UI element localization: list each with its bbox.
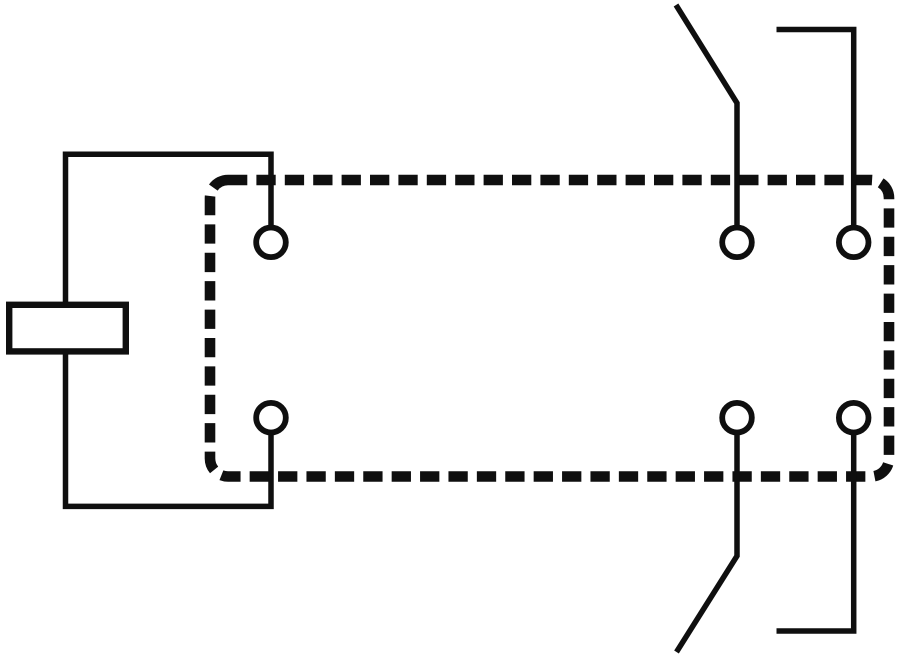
relay coil K1 (9, 305, 126, 352)
wire coil bottom loop (66, 352, 272, 506)
switch arm bottom (pole 2 movable contact) (677, 432, 738, 652)
fixed contact lead top (pole 1) (777, 30, 854, 229)
wire coil top loop (66, 154, 272, 304)
common terminal pole 2 (722, 403, 752, 433)
fixed contact lead bottom (pole 2) (777, 432, 854, 631)
coil terminal bottom-left (256, 403, 286, 433)
switch arm top (pole 1 movable contact) (676, 5, 737, 228)
relay enclosure (dashed outline) (210, 180, 889, 477)
coil terminal top-left (256, 228, 286, 258)
fixed contact terminal pole 2 (839, 403, 869, 433)
fixed contact terminal pole 1 (839, 228, 869, 258)
common terminal pole 1 (722, 228, 752, 258)
